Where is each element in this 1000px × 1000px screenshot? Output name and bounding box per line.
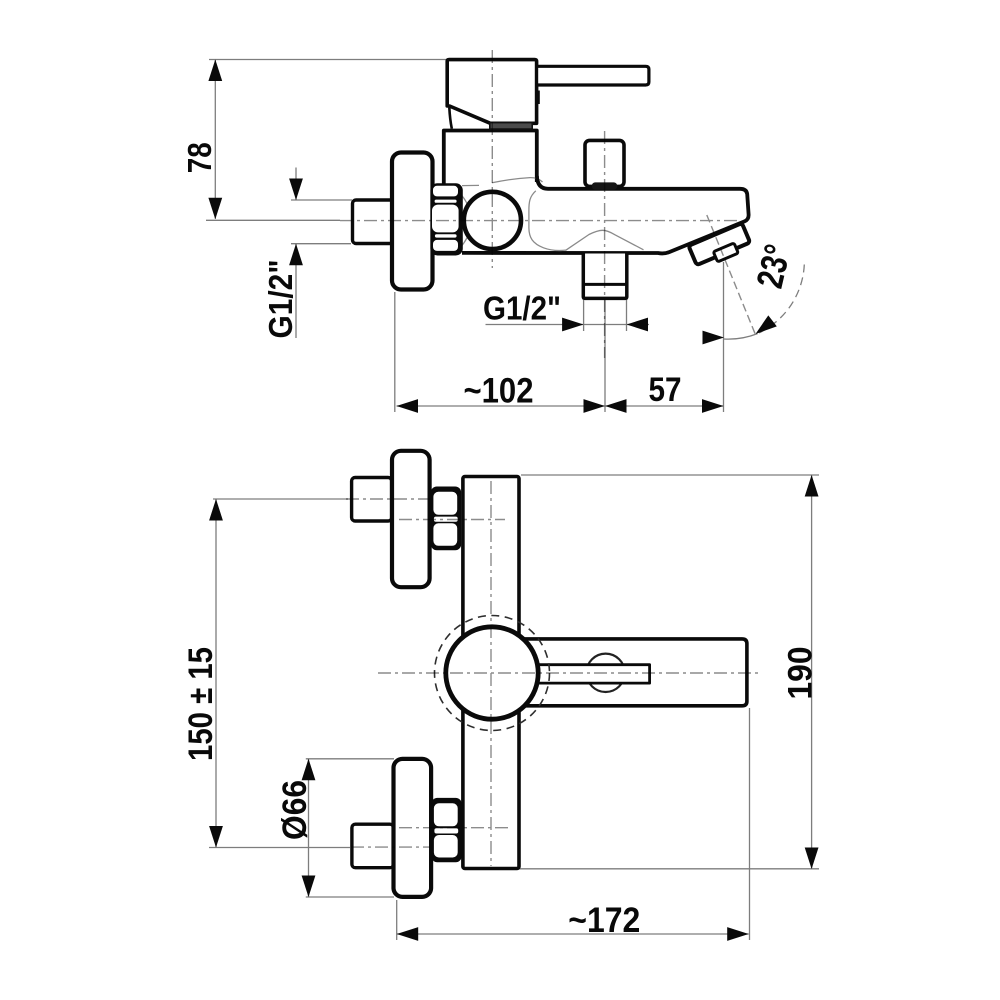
svg-text:G1/2": G1/2" [483, 290, 561, 327]
horizontal axis, top view [340, 220, 737, 222]
23° arc [758, 265, 805, 334]
valve body circle (plan) [446, 627, 538, 719]
bottom connection nut [431, 798, 461, 862]
connection nut behind flange (hex, side view) [430, 183, 462, 255]
190 dimension [521, 474, 819, 476]
svg-text:190: 190 [782, 647, 820, 700]
cartridge housing block [444, 131, 537, 189]
top connection nut [431, 487, 461, 551]
cap lower-left sliver edge [449, 108, 452, 129]
joint ring between cap and body (dark band) [490, 123, 532, 129]
ball joint [464, 192, 521, 249]
lever rod (plan) [536, 665, 650, 683]
centerlines [340, 50, 756, 358]
hidden flange circle behind body (dashed) [435, 616, 550, 731]
G1/2 left dimension [291, 199, 352, 201]
wall flange (rosette), side view [392, 153, 433, 290]
vertical axis through ports [604, 131, 606, 358]
handle cap (side view) [447, 60, 536, 129]
Ø66 dimension [306, 758, 394, 760]
lever pivot circle [586, 654, 624, 692]
svg-text:~172: ~172 [568, 901, 640, 940]
arrowheads, top view [208, 60, 776, 413]
bottom eccentric connector [352, 824, 394, 868]
svg-text:150 ± 15: 150 ± 15 [182, 647, 220, 761]
svg-text:57: 57 [649, 371, 682, 409]
centerlines, bottom view [346, 481, 758, 866]
aerator (angled 23°) [689, 223, 753, 270]
svg-text:23°: 23° [749, 241, 799, 292]
aerator axis (23°) [707, 215, 756, 336]
svg-text:~102: ~102 [464, 372, 534, 411]
top wall flange [392, 451, 430, 587]
arrowheads, bottom view [209, 475, 818, 941]
lever handle bar (side view) [535, 66, 649, 104]
dimension texts, bottom view [182, 647, 820, 941]
main body / spout, side view [462, 176, 749, 253]
~172 dimension [397, 933, 749, 935]
interior cast contour: dome over bottom outlet [460, 185, 644, 250]
bottom outlet (shower hose connection G1/2) [583, 254, 627, 299]
vertical axis through handle and ball [491, 50, 493, 268]
G1/2 bottom dimension [486, 324, 650, 326]
wall supply pipe stub G1/2 [353, 200, 394, 244]
svg-text:G1/2": G1/2" [262, 260, 299, 339]
spout tube (plan) [505, 639, 747, 706]
lever base tick on cap edge [535, 91, 540, 105]
shower diverter port on top of body [585, 140, 624, 189]
~102 / 57 dimension chain [397, 405, 724, 407]
svg-text:78: 78 [181, 142, 218, 173]
body column (plan) [463, 477, 519, 869]
top eccentric connector [352, 478, 392, 522]
bottom wall flange [394, 759, 432, 897]
78 dimension [209, 59, 447, 61]
dimension texts, top view [181, 142, 798, 410]
svg-text:Ø66: Ø66 [276, 780, 314, 840]
150 ± 15 dimension [213, 498, 348, 500]
body neck thin contour lines [492, 178, 543, 183]
